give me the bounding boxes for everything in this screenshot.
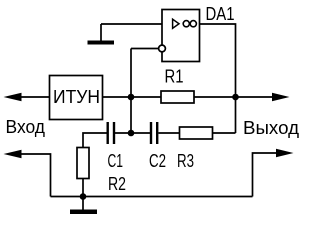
capacitor C1 plate 1 [107,122,109,144]
op-amp U1 box [162,10,200,62]
svg-text:R2: R2 [108,174,126,194]
wire bottom-right arrow [253,153,277,197]
wire R1 to output node [194,96,273,98]
capacitor C2 plate 2 [156,122,158,144]
wire input to ИТУН [18,96,50,98]
svg-text:ИТУН: ИТУН [53,87,100,107]
resistor R3 [180,127,213,139]
op-amp triangle symbol [173,19,179,28]
bottom rail wire [51,196,253,198]
wire R2 to bottom rail [82,179,84,197]
op-amp infinity symbol [183,21,189,27]
svg-text:C2: C2 [149,151,166,171]
arrow bottom left [4,150,22,159]
ground bottom bar [70,210,97,215]
arrow bottom right [276,149,294,158]
node junction D (x83,y196.5) [80,193,87,200]
wire op-amp output [200,24,236,133]
arrow output right [272,93,290,102]
svg-text:Выход: Выход [243,118,300,138]
block ИТУН [50,76,103,120]
wire C1 left to R2 corner [83,133,107,148]
wire ИТУН output to R1 [103,96,162,98]
wire bottom-left arrow [18,154,51,197]
wire non-inverting input from ground [101,23,162,25]
node junction B (x235.5,y97) [232,94,239,101]
capacitor C1 plate 2 [113,122,115,144]
ground top bar [88,41,115,45]
op-amp inverting bubble [159,45,166,52]
wire to inverting input [131,48,159,50]
wire R3 to node B [213,132,236,134]
svg-text:R3: R3 [177,151,194,171]
wire C1 to C2 [115,132,150,134]
svg-text:DA1: DA1 [206,4,235,24]
svg-text:R1: R1 [165,67,184,87]
resistor R2 [77,148,89,179]
wire vertical node A [130,49,132,134]
svg-text:C1: C1 [108,151,124,171]
node junction A (x131,y97) [128,94,135,101]
ground bottom stem [82,197,84,211]
capacitor C2 plate 1 [150,122,152,144]
arrow input left [4,93,22,102]
svg-text:Вход: Вход [6,117,46,137]
node junction C (x131,y133) [128,130,135,137]
ground top stem [100,24,102,41]
resistor R1 [161,91,194,103]
wire C2 to R3 [158,132,179,134]
